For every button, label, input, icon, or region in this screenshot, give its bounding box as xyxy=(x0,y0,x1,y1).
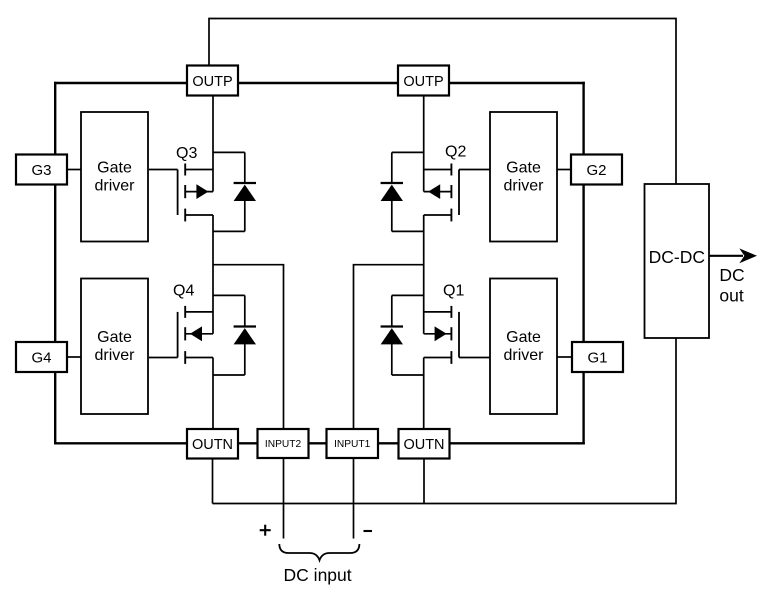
transistor Q4 xyxy=(178,306,213,364)
svg-text:DC input: DC input xyxy=(284,565,352,585)
wire: INPUT2 positive lead xyxy=(283,458,285,539)
wire: bottom return to DC-DC xyxy=(213,338,677,504)
wire: gate driver U2 to G2 xyxy=(557,169,571,171)
label Q4 xyxy=(173,283,194,300)
terminal box INPUT1 xyxy=(327,429,379,458)
terminal box OUTP (right) xyxy=(398,66,449,96)
label + (positive input) xyxy=(260,525,271,536)
svg-text:DC: DC xyxy=(719,265,744,285)
diode D1 (body diode of Q1) xyxy=(381,295,424,375)
gate driver U1 (for Q1) xyxy=(490,279,557,415)
wire: OUTN left box to bottom return xyxy=(212,459,214,504)
label Q1 xyxy=(443,283,464,300)
wire: OUTP to Q3 drain node xyxy=(212,96,214,192)
gate driver U4 (for Q4) xyxy=(81,279,148,415)
svg-text:DC-DC: DC-DC xyxy=(649,247,705,267)
wire: OUTP rail xyxy=(54,82,585,84)
wire: right bridge rail (behind G2/G1) xyxy=(582,82,584,445)
label - (negative input) xyxy=(364,530,373,532)
label DC input xyxy=(284,565,352,585)
svg-text:OUTP: OUTP xyxy=(403,74,443,90)
wire: right phase node to INPUT1 xyxy=(354,265,424,429)
wire: Q2 gate to gate driver U2 xyxy=(459,169,490,171)
wire: OUTN rail xyxy=(54,442,585,444)
wire: left bridge rail (behind G3/G4) xyxy=(54,82,56,445)
svg-text:OUTP: OUTP xyxy=(192,74,232,90)
gate driver U2 (for Q2) xyxy=(490,112,557,242)
diode D4 (body diode of Q4) xyxy=(213,295,256,375)
transistor Q2 xyxy=(424,164,459,222)
svg-text:driver: driver xyxy=(94,177,135,194)
svg-text:driver: driver xyxy=(503,177,544,194)
wire: Q1 source to OUTN xyxy=(423,358,425,430)
svg-text:INPUT2: INPUT2 xyxy=(265,439,302,450)
converter DC-DC xyxy=(645,184,710,338)
wire: Q1 gate to gate driver U1 xyxy=(459,357,490,359)
svg-text:Gate: Gate xyxy=(506,329,541,346)
svg-text:G2: G2 xyxy=(586,162,606,179)
svg-text:OUTN: OUTN xyxy=(192,437,233,453)
terminal box INPUT2 xyxy=(258,429,309,458)
svg-text:G3: G3 xyxy=(31,162,51,179)
wire: G4 to gate driver U4 xyxy=(67,356,81,358)
svg-text:G1: G1 xyxy=(587,349,607,366)
transistor Q1 xyxy=(424,306,459,364)
label DC out xyxy=(719,265,744,305)
terminal box G1 xyxy=(572,342,623,372)
wire: OUTP to Q2 drain node xyxy=(423,96,425,192)
svg-text:Gate: Gate xyxy=(97,159,132,176)
wire: Q2 source to Q1 drain (right phase node) xyxy=(423,215,425,334)
terminal box G2 xyxy=(571,155,622,185)
svg-text:INPUT1: INPUT1 xyxy=(334,439,371,450)
gate driver U3 (for Q3) xyxy=(81,112,148,242)
terminal box OUTP (left) xyxy=(187,66,238,96)
transistor Q3 xyxy=(178,164,213,222)
wire: top loop from OUTP to DC-DC input xyxy=(209,19,676,185)
terminal box G4 xyxy=(16,342,67,372)
label Q2 xyxy=(445,144,466,161)
arrow: DC out xyxy=(709,248,757,263)
svg-text:OUTN: OUTN xyxy=(403,437,444,453)
wire: INPUT1 negative lead xyxy=(353,458,355,539)
svg-text:driver: driver xyxy=(94,347,135,364)
terminal box OUTN (left) xyxy=(187,429,238,459)
svg-text:G4: G4 xyxy=(31,349,51,366)
wire: gate driver U4 to Q4 gate xyxy=(149,357,178,359)
svg-text:Gate: Gate xyxy=(506,159,541,176)
wire: Q3 source to Q4 drain (left phase node) xyxy=(212,215,214,334)
wire: gate driver U3 to Q3 gate xyxy=(149,169,178,171)
label Q3 xyxy=(176,145,197,162)
terminal box G3 xyxy=(16,155,67,185)
wire: gate driver U1 to G1 xyxy=(557,356,572,358)
svg-text:Q3: Q3 xyxy=(176,145,197,162)
diode D3 (body diode of Q3) xyxy=(213,152,256,231)
svg-text:Q1: Q1 xyxy=(443,283,464,300)
svg-text:Gate: Gate xyxy=(97,329,132,346)
diode D2 (body diode of Q2) xyxy=(381,152,424,231)
brace: DC input xyxy=(279,544,359,560)
wire: left phase node to INPUT2 xyxy=(213,265,284,429)
svg-text:out: out xyxy=(719,285,743,305)
terminal box OUTN (right) xyxy=(399,429,450,459)
svg-text:Q4: Q4 xyxy=(173,283,194,300)
wire: Q4 source to OUTN xyxy=(212,358,214,430)
svg-text:driver: driver xyxy=(503,347,544,364)
svg-text:Q2: Q2 xyxy=(445,144,466,161)
wire: G3 to gate driver U3 xyxy=(67,169,81,171)
wire: OUTN right box to bottom return xyxy=(423,459,425,504)
